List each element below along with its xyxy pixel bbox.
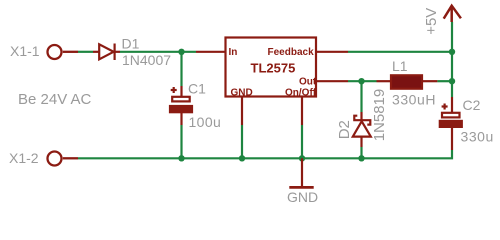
svg-text:Out: Out <box>299 77 317 88</box>
svg-text:+5V: +5V <box>423 8 440 35</box>
junction <box>358 155 364 161</box>
svg-text:100u: 100u <box>189 114 222 130</box>
pin In <box>196 51 226 53</box>
svg-text:In: In <box>229 47 238 58</box>
svg-text:C2: C2 <box>463 97 481 113</box>
ground <box>289 158 313 187</box>
svg-text:D1: D1 <box>122 36 140 52</box>
capacitor C1 <box>170 86 192 125</box>
svg-text:330u: 330u <box>461 129 494 145</box>
junction <box>178 155 184 161</box>
svg-text:Be 24V AC: Be 24V AC <box>18 91 92 108</box>
wire <box>78 51 93 53</box>
IC U1 TL2575 body <box>226 38 317 97</box>
svg-text:TL2575: TL2575 <box>251 61 296 76</box>
wire <box>180 52 182 86</box>
wire <box>437 80 452 82</box>
wire <box>78 150 452 158</box>
svg-text:X1-2: X1-2 <box>9 150 39 166</box>
wire <box>301 125 303 158</box>
svg-text:X1-1: X1-1 <box>10 43 40 59</box>
diode D1 <box>93 44 120 61</box>
svg-text:330uH: 330uH <box>392 91 436 107</box>
svg-text:GND: GND <box>231 88 253 99</box>
junction <box>299 155 305 161</box>
pin On/Off <box>301 97 303 126</box>
wire <box>451 81 453 97</box>
svg-text:On/Off: On/Off <box>285 88 317 99</box>
junction <box>239 155 245 161</box>
wire <box>348 80 377 82</box>
junction <box>358 78 364 84</box>
svg-text:1N4007: 1N4007 <box>122 52 171 68</box>
wire <box>180 125 182 158</box>
wire <box>348 51 452 53</box>
svg-text:D2: D2 <box>336 120 353 139</box>
capacitor C2 <box>440 97 462 150</box>
wire <box>451 52 453 81</box>
terminal X1-2 <box>48 152 79 166</box>
svg-text:L1: L1 <box>392 58 408 74</box>
terminal X1-1 <box>48 45 79 59</box>
svg-text:GND: GND <box>287 189 318 205</box>
inductor L1 <box>377 75 438 88</box>
pin GND <box>241 97 243 126</box>
junction <box>178 49 184 55</box>
wire <box>120 51 196 53</box>
wire <box>241 125 243 158</box>
wire <box>360 147 362 158</box>
svg-text:1N5819: 1N5819 <box>371 89 388 142</box>
wire <box>451 22 453 52</box>
junction <box>449 78 455 84</box>
junction <box>449 49 455 55</box>
pin Out <box>316 80 348 82</box>
pin Feedback <box>316 51 348 53</box>
svg-text:Feedback: Feedback <box>268 47 315 58</box>
svg-text:C1: C1 <box>188 81 206 97</box>
diode D2 <box>353 112 371 147</box>
power +5V <box>444 6 461 22</box>
wire <box>360 81 362 112</box>
